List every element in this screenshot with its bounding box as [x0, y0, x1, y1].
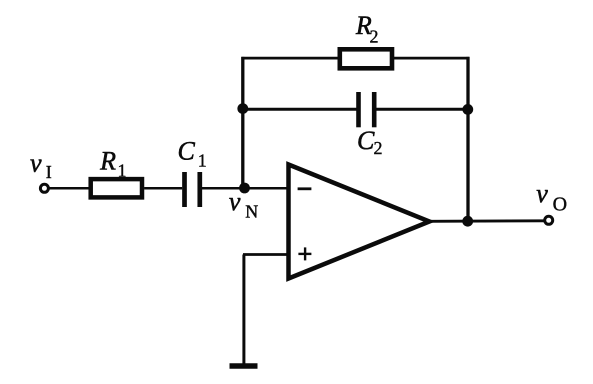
svg-text:1: 1: [198, 150, 207, 170]
svg-text:2: 2: [374, 138, 383, 158]
svg-text:C: C: [357, 126, 375, 155]
svg-text:1: 1: [118, 161, 127, 181]
svg-text:C: C: [178, 136, 196, 165]
svg-text:R: R: [99, 147, 116, 176]
svg-text:I: I: [46, 162, 52, 182]
svg-text:O: O: [553, 194, 567, 216]
svg-text:N: N: [245, 201, 258, 221]
svg-text:v: v: [536, 179, 548, 208]
svg-text:v: v: [30, 148, 42, 177]
svg-text:v: v: [229, 187, 241, 216]
svg-text:2: 2: [370, 26, 379, 46]
